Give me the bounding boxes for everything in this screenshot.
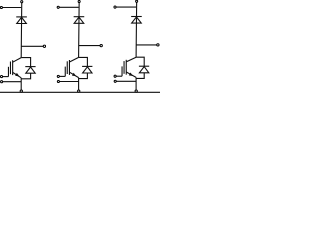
- wire: [59, 6, 78, 8]
- wire (common emitter bottom rail): [0, 91, 161, 93]
- wire: [21, 58, 30, 67]
- node E1x (aux emitter terminal): [1, 81, 3, 83]
- wire: [116, 75, 122, 77]
- wire: [20, 78, 22, 90]
- wire: [3, 81, 21, 83]
- wire: [116, 80, 136, 82]
- node E2 (emitter terminal on rail): [78, 90, 80, 92]
- diode D4: [82, 66, 92, 73]
- transistor Q1 (IGBT): [8, 58, 21, 78]
- node E1 (emitter terminal on rail): [20, 90, 22, 92]
- wire: [136, 44, 157, 46]
- node E3 (emitter terminal on rail): [135, 90, 137, 92]
- wire: [79, 73, 88, 79]
- node C3 (top terminal): [136, 0, 138, 2]
- node E2x (aux emitter terminal): [57, 80, 59, 82]
- node G3 (gate terminal): [114, 75, 116, 77]
- node G2 (gate terminal): [57, 75, 59, 77]
- node A1 (top-left terminal): [0, 6, 2, 8]
- node C1 (top terminal): [21, 1, 23, 3]
- wire: [60, 81, 79, 83]
- transistor Q2 (IGBT): [65, 57, 78, 77]
- diode D3: [74, 17, 85, 24]
- wire: [60, 75, 66, 77]
- diode D2: [25, 67, 35, 74]
- wire: [78, 78, 80, 90]
- diode D5: [131, 17, 142, 24]
- diode D6: [139, 66, 149, 73]
- node E3x (aux emitter terminal): [114, 80, 116, 82]
- wire: [135, 3, 138, 58]
- wire: [136, 57, 144, 66]
- node A2 (top-left terminal): [57, 6, 59, 8]
- node OUT2 (phase output terminal): [100, 44, 102, 46]
- wire: [21, 45, 43, 47]
- transistor Q3 (IGBT): [122, 57, 136, 77]
- wire: [79, 45, 100, 47]
- node C2 (top terminal): [78, 0, 80, 2]
- wire: [3, 76, 9, 78]
- wire: [21, 73, 30, 79]
- node OUT3 (phase output terminal): [157, 44, 159, 46]
- diode D1: [16, 17, 27, 24]
- wire: [136, 73, 144, 79]
- wire: [135, 77, 137, 90]
- wire: [78, 3, 81, 58]
- node G1 (gate terminal): [0, 76, 2, 78]
- node A3 (top-left terminal): [114, 6, 116, 8]
- wire: [116, 6, 136, 8]
- wire: [3, 7, 22, 9]
- wire: [79, 57, 88, 66]
- wire: [20, 3, 23, 58]
- node OUT1 (phase output terminal): [43, 45, 45, 47]
